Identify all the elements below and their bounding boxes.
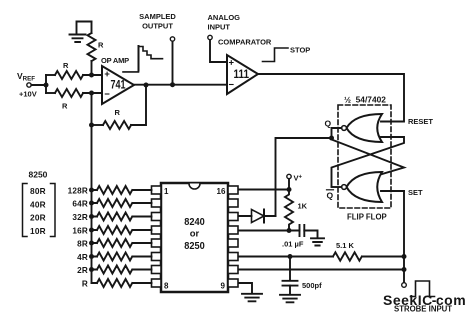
wire ground bracket top — [77, 22, 92, 34]
svg-text:R: R — [63, 61, 69, 70]
ladder row 4R — [92, 253, 152, 261]
node SAMPLED OUTPUT terminal — [170, 37, 174, 41]
svg-text:STOP: STOP — [290, 46, 310, 55]
svg-text:5.1 K: 5.1 K — [336, 241, 355, 250]
svg-text:RESET: RESET — [408, 117, 433, 126]
diode D1 — [252, 210, 265, 223]
wire top of R3 — [91, 22, 93, 34]
svg-text:4R: 4R — [77, 253, 88, 262]
svg-text:R: R — [115, 108, 121, 117]
nor gate U3A (top) — [347, 114, 383, 142]
wire pin4 row to C1 — [238, 230, 300, 232]
wire R4 to output — [131, 85, 146, 125]
svg-text:10R: 10R — [30, 226, 46, 236]
wire pin7 row — [238, 269, 404, 271]
wire VREF to split node — [31, 84, 46, 86]
ladder row 64R — [92, 199, 152, 207]
svg-text:16: 16 — [217, 187, 226, 196]
svg-text:Q: Q — [327, 191, 334, 201]
svg-text:1: 1 — [164, 187, 169, 196]
resistor R2 (lower input R) — [55, 89, 83, 97]
svg-text:OUTPUT: OUTPUT — [142, 22, 173, 31]
bubble U3B output — [342, 185, 347, 190]
svg-text:+10V: +10V — [19, 90, 37, 99]
svg-text:111: 111 — [234, 69, 250, 81]
svg-text:SET: SET — [408, 188, 423, 197]
junction opamp + node — [89, 73, 94, 78]
svg-text:8250: 8250 — [29, 170, 48, 180]
ladder row 32R — [92, 213, 152, 221]
wire U3B lower input to SET — [381, 190, 404, 192]
junction opamp output — [144, 83, 149, 88]
wire sampled output vertical — [172, 41, 174, 84]
wire pin6 row to 5.1K — [238, 256, 333, 258]
bracket left — [23, 184, 28, 237]
nor gate U3B (bottom) — [347, 172, 383, 202]
flip flop dashed box — [338, 105, 391, 208]
junction V+ node — [287, 187, 292, 192]
ladder row 16R — [92, 226, 152, 234]
wire C1 to ground — [304, 231, 317, 238]
op-amp U1 741 — [102, 66, 134, 104]
svg-text:.01 µF: .01 µF — [282, 240, 304, 249]
wire to R1 — [46, 74, 55, 76]
ground G1 — [70, 35, 86, 43]
svg-text:741: 741 — [111, 80, 126, 92]
wire to R4 — [92, 124, 104, 126]
svg-text:COMPARATOR: COMPARATOR — [218, 38, 272, 47]
icon strobe pulse — [411, 281, 435, 297]
pin boxes left — [152, 186, 162, 287]
svg-text:8: 8 — [164, 282, 169, 291]
svg-text:32R: 32R — [72, 213, 88, 222]
svg-text:R: R — [82, 280, 88, 289]
wire Q cross to U3B input — [332, 140, 405, 175]
svg-text:R: R — [62, 102, 68, 111]
wire R3 to + node — [91, 61, 93, 75]
wire pin8 row to ground — [238, 283, 252, 293]
bubble U3A output — [342, 126, 347, 131]
ladder row R — [92, 279, 152, 287]
svg-text:1K: 1K — [298, 202, 308, 211]
icon STOP step waveform — [263, 48, 289, 62]
notch — [189, 184, 200, 190]
wire U3A lower input cross — [332, 137, 405, 187]
svg-text:500pf: 500pf — [302, 281, 322, 290]
svg-text:8R: 8R — [77, 240, 88, 249]
wire opamp output to comparator — [134, 84, 227, 86]
svg-text:40R: 40R — [30, 199, 46, 209]
svg-text:SAMPLED: SAMPLED — [139, 12, 176, 21]
IC U4 body 8240/8250 — [161, 183, 228, 292]
svg-text:OP AMP: OP AMP — [101, 56, 129, 65]
pin boxes right — [228, 186, 238, 287]
ground G3 — [280, 295, 300, 303]
svg-text:Q: Q — [325, 119, 332, 129]
comparator U2 111 — [227, 55, 258, 94]
svg-text:20R: 20R — [30, 213, 46, 223]
svg-text:128R: 128R — [68, 187, 88, 196]
node VREF terminal — [27, 83, 31, 87]
ladder row 128R — [92, 186, 152, 194]
resistor R3 (vertical R to ground) — [88, 33, 96, 61]
wire Q output — [332, 128, 342, 138]
wire pin3 to diode — [238, 215, 276, 217]
ladder row 2R — [92, 266, 152, 274]
wire C2 to ground — [289, 286, 291, 294]
pin - of U2 — [230, 84, 234, 86]
pin + of U1 — [105, 72, 109, 76]
junction strobe line upper — [402, 254, 407, 259]
svg-text:VREF: VREF — [17, 71, 35, 83]
junction 500pf tap — [288, 254, 293, 259]
svg-text:FLIP FLOP: FLIP FLOP — [347, 213, 387, 222]
svg-text:9: 9 — [221, 282, 226, 291]
svg-text:or: or — [190, 229, 200, 240]
junction Q node — [329, 136, 334, 141]
wire split vertical — [45, 75, 47, 93]
svg-text:V+: V+ — [294, 174, 303, 183]
svg-text:½ 54/7402: ½ 54/7402 — [344, 95, 386, 105]
svg-text:8250: 8250 — [184, 240, 205, 252]
svg-text:R: R — [98, 41, 104, 50]
svg-text:STROBE INPUT: STROBE INPUT — [394, 305, 452, 314]
wire R1 to opamp + — [83, 74, 102, 76]
svg-text:INPUT: INPUT — [208, 23, 231, 32]
pin - of U1 — [105, 93, 109, 95]
wire inverting bus down — [91, 93, 93, 283]
wire V+ down — [288, 179, 290, 190]
wire comparator output to RESET input — [258, 74, 404, 122]
svg-text:ANALOG: ANALOG — [208, 13, 241, 22]
junction strobe line lower — [402, 267, 407, 272]
resistor R4 (feedback R) — [103, 121, 131, 129]
junction VREF split — [44, 83, 49, 88]
ground G4 — [242, 294, 262, 302]
pin + of U2 — [230, 61, 234, 65]
junction opamp inverting node — [89, 91, 94, 96]
wire SET to strobe terminal — [403, 191, 405, 283]
resistor R1 (upper input R) — [55, 71, 83, 79]
wire analog input to comparator + — [210, 40, 227, 62]
svg-text:16R: 16R — [72, 227, 88, 236]
capacitor C1 .01uF — [300, 225, 305, 236]
node ANALOG INPUT terminal — [208, 35, 212, 39]
capacitor C2 500pf — [283, 281, 298, 286]
wire 500pf drop — [289, 257, 291, 280]
resistor R5 1K — [285, 190, 293, 231]
resistor R6 5.1K — [333, 252, 362, 260]
svg-text:80R: 80R — [30, 186, 46, 196]
junction sampled output tap — [170, 82, 175, 87]
junction 1K bottom — [287, 228, 292, 233]
wire to R2 — [46, 92, 55, 94]
ground G2 — [311, 238, 324, 245]
node STROBE terminal — [402, 283, 407, 288]
svg-text:64R: 64R — [72, 200, 88, 209]
wire R2 to opamp - — [83, 92, 102, 94]
junction feedback tap — [89, 123, 94, 128]
wire Qbar output — [332, 186, 342, 188]
wire 5.1K to strobe line — [362, 256, 404, 258]
wire pin16 row — [238, 189, 289, 191]
wire Q to diode cathode — [276, 138, 332, 216]
svg-text:2R: 2R — [77, 266, 88, 275]
icon staircase waveform — [138, 46, 140, 71]
ladder row 8R — [92, 239, 152, 247]
bracket right — [51, 184, 56, 237]
node V+ terminal — [287, 174, 291, 178]
svg-text:8240: 8240 — [184, 216, 205, 228]
